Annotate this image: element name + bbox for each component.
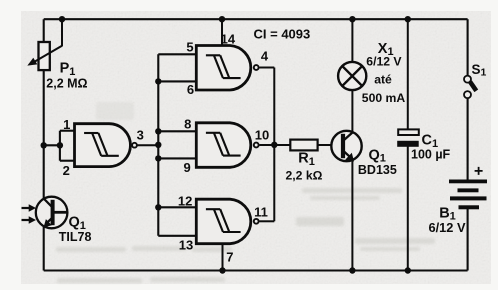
svg-text:500 mA: 500 mA [362, 91, 406, 105]
svg-text:2: 2 [63, 163, 70, 178]
svg-text:CI = 4093: CI = 4093 [254, 26, 311, 41]
svg-text:6: 6 [187, 82, 194, 97]
svg-text:13: 13 [179, 237, 193, 252]
svg-text:5: 5 [186, 39, 193, 54]
svg-text:1: 1 [63, 117, 70, 132]
svg-text:10: 10 [255, 127, 269, 142]
svg-text:14: 14 [221, 32, 236, 47]
svg-text:7: 7 [226, 250, 233, 265]
svg-text:4: 4 [261, 49, 269, 64]
svg-text:2,2 kΩ: 2,2 kΩ [286, 168, 323, 182]
svg-text:100 µF: 100 µF [411, 148, 451, 162]
svg-text:11: 11 [254, 204, 268, 219]
svg-text:BD135: BD135 [358, 163, 397, 177]
svg-text:6/12 V: 6/12 V [429, 220, 466, 235]
svg-text:3: 3 [137, 127, 144, 142]
svg-text:12: 12 [178, 193, 192, 208]
svg-text:8: 8 [184, 116, 191, 131]
svg-text:9: 9 [183, 160, 190, 175]
svg-text:2,2 MΩ: 2,2 MΩ [46, 77, 87, 91]
svg-text:até: até [374, 72, 392, 86]
svg-text:TIL78: TIL78 [59, 230, 92, 244]
